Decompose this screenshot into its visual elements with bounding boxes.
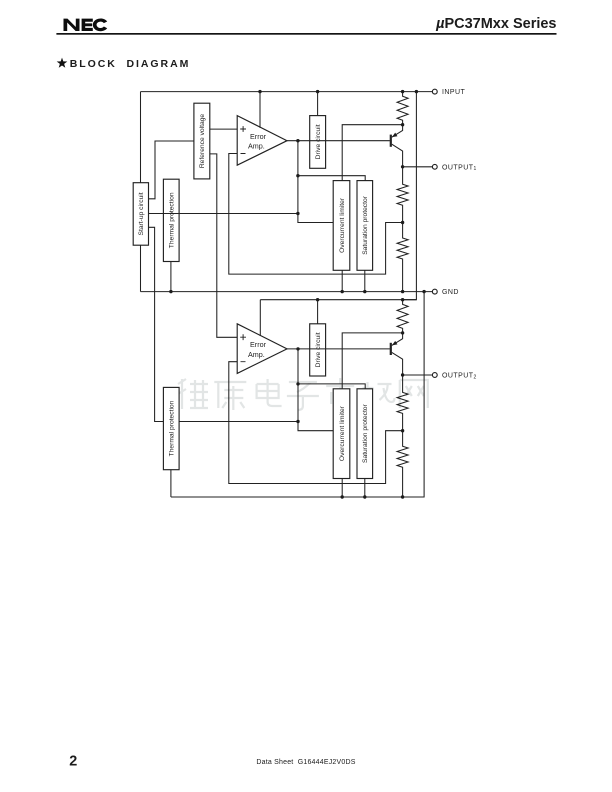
wire base drive to Q2 (326, 348, 390, 350)
terminal OUTPUT2 (432, 373, 476, 381)
terminal GND (432, 289, 459, 296)
svg-text:OUTPUT1: OUTPUT1 (442, 164, 477, 172)
svg-text:Saturation protector: Saturation protector (362, 195, 369, 255)
box drive circuit (upper) (310, 116, 326, 169)
node junction dots (upper) (169, 90, 426, 293)
svg-text:OUTPUT2: OUTPUT2 (442, 373, 477, 381)
wire base drive to Q1 (326, 140, 390, 142)
watermark char 1 (178, 379, 208, 409)
box drive circuit (lower) (310, 324, 326, 376)
box saturation protector (upper) (357, 181, 373, 271)
transistor Q1 (391, 125, 403, 167)
wire drive circuit top pin (upper) (317, 92, 319, 116)
watermark char 7 (400, 380, 428, 408)
op-amp error amp (lower) (237, 324, 287, 374)
svg-text:Thermal protection: Thermal protection (169, 400, 176, 456)
svg-text:Start-up circuit: Start-up circuit (138, 192, 145, 235)
svg-text:µPC37Mxx Series: µPC37Mxx Series (435, 16, 556, 32)
wire amp power (lower) (259, 300, 261, 336)
wire amp power (upper) (259, 92, 261, 128)
wire lower gnd rail (171, 292, 424, 497)
wire saturation protector bottom (upper) (364, 270, 366, 291)
watermark char 3 (257, 379, 282, 406)
svg-text:Overcurrent limiter: Overcurrent limiter (339, 197, 346, 253)
resistor R3 (397, 223, 408, 292)
wire drive circuit top pin (lower) (317, 300, 319, 324)
wire amp output to drive circuit (lower) (287, 348, 310, 350)
wire feedback divider (upper) (229, 154, 403, 275)
watermark char 2 (214, 382, 246, 410)
footer page number 2 (69, 753, 77, 769)
wire start-up bottom to gnd rail (140, 245, 142, 291)
wire drive circuit through line (upper) (310, 140, 326, 142)
heading BLOCK DIAGRAM (70, 58, 191, 70)
box reference voltage (194, 103, 210, 179)
svg-text:Drive circuit: Drive circuit (315, 124, 322, 159)
box overcurrent limiter (lower) (333, 389, 350, 479)
svg-text:Drive circuit: Drive circuit (315, 332, 322, 367)
transistor Q2 (391, 333, 403, 375)
star bullet (57, 58, 68, 68)
wire thermal protection bottom (lower) (170, 470, 172, 497)
wire thermal protection (upper) to gnd (170, 262, 172, 292)
wire reference to plus input (lower) (210, 154, 237, 337)
wire amp output to drive circuit (upper) (287, 140, 310, 142)
wire start-up link to lower block (149, 227, 299, 421)
wire input rail (141, 91, 433, 93)
svg-text:Thermal protection: Thermal protection (169, 192, 176, 248)
wire output2 line (403, 374, 433, 376)
header title µPC37Mxx Series (435, 16, 556, 32)
wire output-node vertical feedback (lower) (298, 349, 333, 431)
svg-text:2: 2 (69, 753, 77, 769)
wire overcurrent limiter feed (lower) (342, 333, 402, 389)
resistor R1 (397, 92, 408, 125)
wire output1 line (403, 166, 433, 168)
watermark char 6 (363, 382, 395, 408)
terminal OUTPUT1 (432, 164, 476, 172)
terminal INPUT (432, 89, 465, 96)
wire feedback divider (lower) (229, 362, 403, 484)
wire reference to plus input (upper) (210, 128, 237, 130)
wire overcurrent limiter feed (upper) (342, 125, 402, 181)
box thermal protection (lower) (163, 387, 179, 469)
svg-text:Reference voltage: Reference voltage (199, 114, 206, 169)
NEC logo (64, 18, 108, 31)
svg-text:Error: Error (250, 132, 267, 141)
wire lower supply rail (260, 299, 416, 301)
node junction dots (lower) (296, 298, 404, 499)
resistor R4 (397, 300, 408, 333)
box start-up circuit (133, 183, 148, 246)
wire start-up to reference voltage (149, 141, 194, 199)
wire input feed to lower block (403, 92, 417, 300)
resistor R2 (397, 167, 408, 223)
footer doc id (256, 759, 355, 766)
svg-text:GND: GND (442, 289, 459, 296)
wire saturation protector feed (upper) (298, 176, 365, 181)
wire overcurrent limiter bottom (lower) (341, 479, 343, 498)
svg-text:Saturation protector: Saturation protector (362, 403, 369, 463)
resistor R5 (397, 375, 408, 431)
svg-text:Amp.: Amp. (248, 142, 265, 151)
wire output-node vertical feedback (upper) (298, 141, 333, 223)
box thermal protection (upper) (163, 179, 179, 261)
svg-text:INPUT: INPUT (442, 89, 466, 96)
op-amp error amp (upper) (237, 116, 287, 166)
wire overcurrent limiter bottom (upper) (341, 270, 343, 291)
resistor R6 (397, 431, 408, 497)
wire saturation protector bottom (lower) (364, 479, 366, 498)
box overcurrent limiter (upper) (333, 181, 350, 271)
watermark char 5 (326, 378, 354, 410)
svg-text:Overcurrent limiter: Overcurrent limiter (339, 405, 346, 461)
svg-text:BLOCK DIAGRAM: BLOCK DIAGRAM (70, 58, 191, 70)
WATERMARK (178, 378, 428, 410)
svg-text:Error: Error (250, 340, 267, 349)
wire saturation protector feed (lower) (298, 384, 365, 389)
wire left boundary to start-up (140, 92, 142, 183)
box saturation protector (lower) (357, 389, 373, 479)
header rule (56, 33, 556, 35)
wire gnd rail (141, 291, 433, 293)
wire drive circuit through line (lower) (310, 348, 326, 350)
wire start-up thermal bias link (149, 213, 298, 215)
watermark char 4 (287, 382, 319, 410)
svg-text:Amp.: Amp. (248, 350, 265, 359)
svg-text:Data Sheet G16444EJ2V0DS: Data Sheet G16444EJ2V0DS (256, 759, 355, 766)
